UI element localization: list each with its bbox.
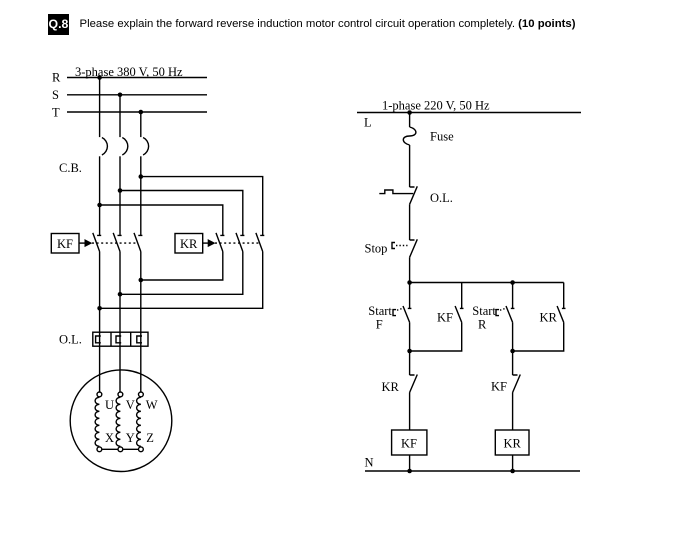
motor terminal U <box>97 392 102 397</box>
node N-KF <box>407 469 412 474</box>
svg-text:C.B.: C.B. <box>59 161 82 175</box>
KF contact pole 3 <box>134 233 142 252</box>
Start F button actuator <box>393 310 396 316</box>
Start R NO pushbutton contact <box>506 306 514 322</box>
wire R drop <box>99 78 101 138</box>
wire to KF interlock <box>512 351 514 375</box>
KR holding NO contact <box>557 306 565 322</box>
wire R branch upper <box>512 283 514 309</box>
node bus left <box>407 280 412 285</box>
motor terminal W <box>139 392 144 397</box>
svg-text:KR: KR <box>180 237 198 251</box>
node KR2-S junction <box>118 292 123 297</box>
svg-text:O.L.: O.L. <box>59 333 82 347</box>
motor terminal V <box>118 392 123 397</box>
KF contact pole 2 <box>113 233 121 252</box>
KR actuator dashed link <box>215 242 260 244</box>
node R junction <box>510 349 515 354</box>
wire R branch lower <box>512 322 514 351</box>
motor winding U-X <box>95 397 99 446</box>
svg-text:R: R <box>478 318 487 332</box>
wire F branch upper <box>409 283 411 309</box>
KR contact pole 2 <box>236 233 244 252</box>
svg-text:Y: Y <box>126 431 135 445</box>
svg-text:R: R <box>52 71 61 85</box>
node R feed to KR <box>97 203 102 208</box>
svg-text:N: N <box>365 456 374 470</box>
svg-text:Start: Start <box>472 304 496 318</box>
svg-text:T: T <box>52 106 60 120</box>
wire to KF coil <box>409 393 411 431</box>
svg-text:X: X <box>105 431 114 445</box>
svg-text:Start: Start <box>368 304 392 318</box>
KR contact pole 1 <box>216 233 224 252</box>
node N-KR <box>510 469 515 474</box>
wire KF holding branch upper <box>461 283 463 309</box>
KR contact pole 3 <box>256 233 264 252</box>
svg-text:Stop: Stop <box>365 242 388 256</box>
wire KR pole 1 out to T <box>141 252 223 281</box>
wire S to KR pole 2 <box>120 191 243 236</box>
KF actuator arrow <box>79 242 85 244</box>
svg-text:KR: KR <box>382 380 400 394</box>
motor winding W-Z <box>137 397 141 446</box>
wire R below breaker <box>99 156 101 235</box>
question number box Q.8 <box>48 14 69 35</box>
motor terminal Y <box>118 447 123 452</box>
svg-text:F: F <box>376 318 383 332</box>
svg-text:O.L.: O.L. <box>430 191 453 205</box>
node L tap <box>407 110 412 115</box>
svg-text:Fuse: Fuse <box>430 130 454 144</box>
wire S below breaker <box>119 156 121 235</box>
Stop button actuator <box>392 243 395 249</box>
wire L drop <box>409 113 411 128</box>
wire KR coil to N <box>512 455 514 471</box>
O.L. NC contact <box>410 186 418 204</box>
wire R to overload <box>99 252 101 392</box>
KF contact pole 1 <box>93 233 101 252</box>
node T feed to KR <box>139 174 144 179</box>
wire OL to Stop <box>409 204 411 240</box>
contactor coil box KF <box>51 234 79 254</box>
wire to KR coil <box>512 393 514 431</box>
coil KR <box>495 430 529 455</box>
overload relay O.L. body <box>93 332 148 346</box>
KF holding NO contact <box>455 306 463 322</box>
phase T bus <box>67 111 207 113</box>
overload heater phase R <box>96 336 101 343</box>
motor terminal Z <box>139 447 144 452</box>
line N bus <box>365 470 580 472</box>
svg-text:KR: KR <box>540 311 558 325</box>
wire KR holding lower <box>513 322 564 351</box>
fuse <box>403 127 416 145</box>
svg-text:KF: KF <box>491 380 507 394</box>
circuit breaker C.B. pole 2 <box>122 138 128 156</box>
wire T below breaker <box>140 156 142 235</box>
overload heater phase T <box>137 336 142 343</box>
svg-text:KF: KF <box>401 437 417 451</box>
svg-text:U: U <box>105 398 114 412</box>
svg-text:KR: KR <box>504 437 522 451</box>
wire to KR interlock <box>409 351 411 375</box>
motor winding V-Y <box>116 397 120 446</box>
KF NC interlock contact <box>513 375 521 393</box>
svg-text:KF: KF <box>437 311 453 325</box>
wire Stop to bus <box>409 257 411 282</box>
svg-text:1-phase 220 V, 50 Hz: 1-phase 220 V, 50 Hz <box>382 99 490 113</box>
Start R button actuator <box>496 310 499 316</box>
wire S to overload <box>119 252 121 392</box>
wire T to KR pole 3 <box>141 177 263 236</box>
coil KF <box>392 430 427 455</box>
svg-text:S: S <box>52 88 59 102</box>
KR actuator arrow <box>203 242 209 244</box>
phase R bus <box>67 77 207 79</box>
wire T to overload <box>140 252 142 392</box>
node KR3-R junction <box>97 306 102 311</box>
wire KR pole 2 out to S <box>120 252 243 295</box>
wire S drop <box>119 95 121 137</box>
wire T drop <box>140 112 142 137</box>
svg-text:V: V <box>126 398 135 412</box>
control bus <box>410 282 564 284</box>
contactor coil box KR <box>175 234 203 254</box>
wire KF holding lower <box>410 322 462 351</box>
svg-text:L: L <box>364 116 372 130</box>
node S feed to KR <box>118 188 123 193</box>
wire F branch lower <box>409 322 411 351</box>
line L bus <box>357 112 581 114</box>
node T tap <box>139 110 144 115</box>
svg-text:W: W <box>146 398 158 412</box>
circuit breaker C.B. pole 3 <box>143 138 149 156</box>
wire KF coil to N <box>409 455 411 471</box>
wire KR holding branch upper <box>563 283 565 309</box>
phase S bus <box>67 94 207 96</box>
wire KR pole 3 out to R <box>100 252 263 309</box>
KR NC interlock contact <box>410 375 418 393</box>
node S tap <box>118 93 123 98</box>
O.L. thermal actuator <box>379 190 413 194</box>
node R tap <box>97 75 102 80</box>
node KR1-T junction <box>139 278 144 283</box>
motor star bar <box>99 448 140 450</box>
svg-text:Z: Z <box>146 431 154 445</box>
motor terminal X <box>97 447 102 452</box>
Stop NC pushbutton contact <box>410 239 418 257</box>
wire R to KR pole 1 <box>100 205 223 236</box>
circuit breaker C.B. pole 1 <box>102 138 108 156</box>
svg-text:KF: KF <box>57 237 73 251</box>
question text <box>80 18 576 30</box>
wire fuse to OL contact <box>409 145 411 187</box>
node bus right <box>510 280 515 285</box>
motor body <box>70 370 172 472</box>
overload heater phase S <box>116 336 121 343</box>
Start F NO pushbutton contact <box>403 306 411 322</box>
node F junction <box>407 349 412 354</box>
KF actuator dashed link <box>92 242 138 244</box>
